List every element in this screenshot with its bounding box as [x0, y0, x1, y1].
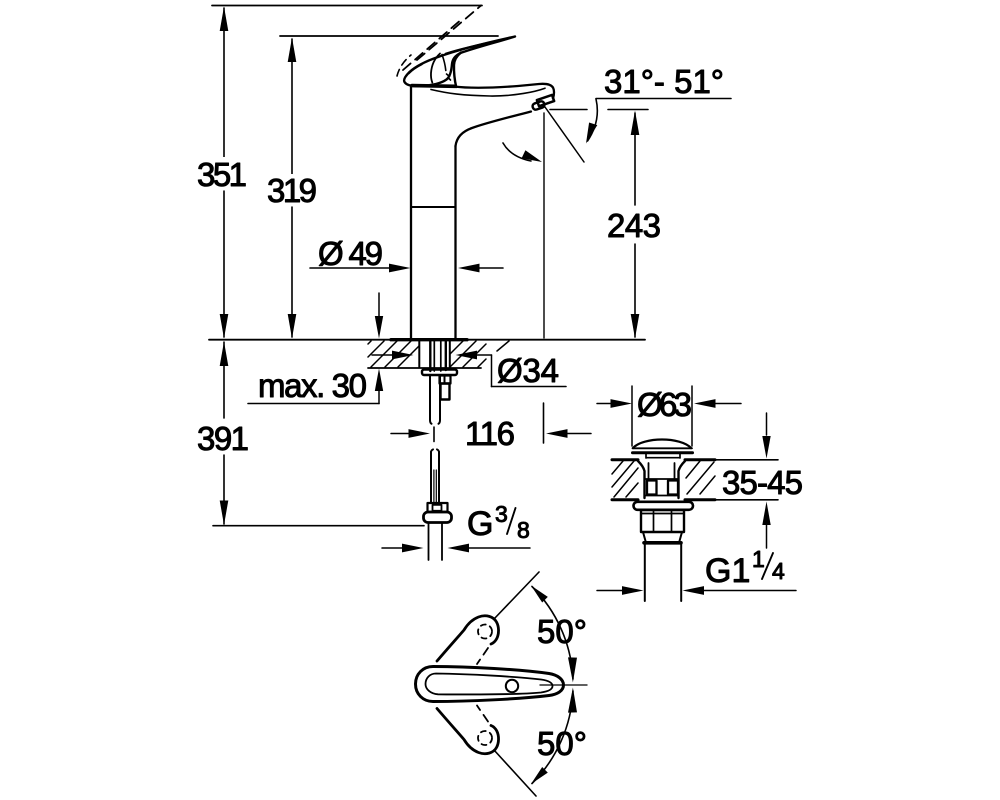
mounting stud upper: [440, 376, 451, 384]
plan handle inner outline: [426, 674, 553, 695]
drain D63 extension lines: [632, 386, 692, 446]
handle knob inner detail: [409, 65, 422, 74]
basin bottom line: [612, 498, 715, 501]
spout swivel arc: [503, 143, 531, 161]
dimension 319 vertical line: [291, 39, 293, 337]
plan upper ghost handle solid edge: [437, 616, 499, 661]
dimension 391 vertical line: [223, 342, 225, 524]
deck top line: [209, 339, 645, 341]
drain cap rim: [633, 447, 693, 449]
faucet body right edge: [454, 146, 456, 338]
G3/8 fitting nut: [424, 512, 452, 523]
aerator body: [537, 95, 554, 106]
plan lower 50 leg: [494, 750, 536, 796]
label max30 underline: [248, 403, 379, 405]
label D34 underline: [492, 386, 567, 388]
aerator tab: [532, 101, 545, 111]
plan upper arc arrowhead: [531, 586, 548, 603]
dimension 243 top tick line: [608, 109, 648, 111]
label 391: [194, 419, 254, 453]
svg-text:G1: G1: [705, 552, 750, 590]
label 243: [603, 207, 665, 241]
handle inner top line: [446, 39, 505, 53]
G3/8 pipe: [429, 523, 443, 561]
dimension D63 left arrow: [597, 403, 612, 405]
svg-text:31°- 51°: 31°- 51°: [604, 63, 724, 100]
plan lower arc arrowhead: [531, 767, 548, 784]
svg-text:3: 3: [495, 501, 508, 527]
drain body inner lines: [649, 463, 675, 479]
svg-text:Ø63: Ø63: [637, 386, 692, 423]
svg-text:50°: 50°: [537, 613, 587, 650]
label 31-51 underline: [596, 98, 731, 100]
drain window slots: [647, 481, 657, 495]
dimension 116 right arrow: [566, 433, 591, 435]
G3/8 fitting nipple: [428, 503, 448, 512]
label D34 leader riser: [491, 355, 493, 387]
basin top line: [612, 458, 715, 461]
G3/8 fitting nipple inner: [433, 505, 442, 511]
angle arc 31-51: [588, 99, 598, 141]
faucet body left edge: [410, 87, 412, 339]
dimension G3/8 left arrow: [382, 547, 404, 549]
angle arc arrowhead: [586, 123, 597, 144]
spout underside sweep: [456, 112, 532, 147]
dimension 35-45 lower arrow: [766, 524, 768, 548]
handle neck front edge: [454, 53, 461, 88]
dimension 351 reference top line: [212, 5, 482, 7]
dimension 351 bottom arrowhead: [220, 314, 229, 339]
dimension 243 top arrowhead: [631, 111, 640, 136]
supply hose lower segment: [431, 449, 439, 503]
aerator axis vertical line: [543, 113, 545, 338]
svg-text:319: 319: [267, 172, 317, 209]
dimension D49 left arrow with underline: [310, 267, 391, 269]
svg-text:391: 391: [197, 420, 249, 457]
faucet shank inner hose lines: [434, 341, 441, 371]
dimension max30 lower arrow: [378, 390, 380, 404]
dimension 116 left arrow: [391, 433, 410, 435]
plan lower 50 arc: [532, 691, 573, 784]
dimension 116 left tick: [433, 427, 435, 442]
dimension 35-45 upper arrow: [766, 413, 768, 435]
handle lever outline: [404, 37, 515, 87]
deck bottom line: [368, 367, 481, 369]
svg-text:max. 30: max. 30: [258, 367, 367, 404]
dimension 319 bottom arrowhead: [288, 314, 297, 339]
svg-text:50°: 50°: [537, 725, 587, 762]
handle dash marks: [447, 74, 451, 80]
drain tailpipe: [645, 544, 681, 601]
aerator level tick line: [550, 109, 587, 111]
spout crease line: [431, 88, 545, 96]
plan vertex upper arrowhead: [568, 657, 577, 682]
svg-text:Ø34: Ø34: [497, 352, 559, 389]
svg-text:G: G: [467, 505, 493, 543]
dimension G1-1/4 left arrow: [597, 590, 624, 592]
plan upper ghost dashed edge: [477, 648, 488, 664]
svg-text:351: 351: [197, 156, 247, 193]
plan vertex lower arrowhead: [568, 688, 577, 713]
drain nut chamfer: [643, 532, 682, 541]
drain cap lower rim: [646, 453, 680, 458]
dimension G1-1/4 right arrow: [703, 590, 797, 592]
deck hole right edge: [449, 341, 451, 367]
spout angle diagonal line: [545, 107, 584, 162]
deck hole left edge: [418, 341, 420, 367]
svg-text:4: 4: [772, 558, 785, 584]
drain washer: [634, 502, 694, 510]
supply hose inner lines: [434, 470, 436, 503]
dimension 391 bottom arrowhead: [220, 501, 229, 526]
deck top line bold segment under faucet: [391, 338, 467, 341]
plan upper 50 leg: [494, 572, 539, 619]
plan upper ghost dashed circle: [478, 625, 492, 639]
drain body right side: [679, 461, 686, 498]
drain dome cap: [633, 440, 691, 449]
plan center line: [540, 684, 587, 686]
dimension G3/8 right arrow: [468, 547, 531, 549]
plan lower ghost handle solid edge: [437, 709, 499, 754]
plan handle outer outline: [416, 667, 564, 702]
dimension D49 right arrow: [478, 267, 503, 269]
plan lower ghost dashed circle: [478, 731, 492, 745]
dimension 391 bottom reference line: [213, 525, 424, 527]
handle dome arc: [431, 54, 440, 83]
drain window: [645, 479, 678, 496]
dimension max30 upper arrow: [378, 293, 380, 317]
handle crease: [442, 55, 446, 71]
basin hatch right: [686, 461, 715, 494]
spout top edge: [454, 84, 554, 99]
plan lower ghost dashed edge: [477, 706, 488, 722]
dimension 351 vertical line: [223, 8, 225, 337]
handle base shadow band: [412, 84, 455, 88]
svg-text:1: 1: [752, 546, 765, 572]
label 319: [263, 174, 321, 206]
deck hatch right: [450, 341, 509, 367]
svg-text:35-45: 35-45: [722, 464, 803, 501]
plan upper 50 arc: [532, 587, 573, 680]
raised lever dashed pivot arc: [397, 55, 411, 76]
dimension 351 top arrowhead: [220, 7, 229, 32]
supply hose upper segment: [430, 375, 440, 424]
dimension 319 reference line: [280, 35, 498, 37]
drain nut facets: [642, 511, 683, 531]
dimension 116 right tick: [543, 403, 545, 443]
raised lever dashed edge A: [417, 6, 481, 61]
dimension 243 vertical line: [634, 113, 636, 337]
svg-text:8: 8: [517, 517, 530, 543]
dimension D34 right arrow: [476, 354, 492, 356]
plan handle pivot circle: [506, 680, 518, 692]
basin hatch left: [612, 461, 638, 497]
drain body left side: [638, 461, 645, 498]
dimension 391 top arrowhead: [220, 342, 229, 367]
dimension 243 bottom arrowhead: [631, 314, 640, 339]
mounting washer: [422, 370, 457, 376]
faucet body seam line: [412, 206, 456, 208]
svg-text:116: 116: [465, 415, 515, 452]
dimension D63 right arrow: [714, 403, 741, 405]
drain hex nut: [641, 510, 684, 532]
label 351: [194, 157, 252, 190]
svg-text:243: 243: [607, 207, 661, 244]
svg-text:Ø 49: Ø 49: [318, 235, 383, 272]
deck hatch left: [368, 341, 419, 367]
faucet shank outer lines: [430, 341, 446, 371]
mounting stud lower: [441, 384, 450, 400]
spout swivel arrowhead: [522, 150, 542, 162]
dimension D34 left arrow: [372, 354, 394, 356]
dimension 319 top arrowhead: [288, 38, 297, 63]
raised lever dashed edge B: [403, 22, 459, 71]
